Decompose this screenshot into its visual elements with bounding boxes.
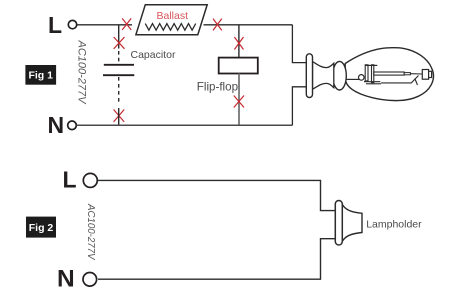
svg-text:Flip-flop: Flip-flop <box>197 81 238 94</box>
wire: dashed capacitor branch lower <box>118 77 120 104</box>
svg-text:L: L <box>63 166 77 192</box>
wire: L terminal to ballast <box>77 24 132 26</box>
wire: L terminal to lampholder (Fig 2) <box>98 180 336 210</box>
wire: N terminal to lamp (Fig 1) <box>77 124 293 126</box>
cut mark X3 on capacitor branch lower <box>114 110 125 122</box>
cut mark X6 on flip-flop branch lower <box>234 96 244 108</box>
svg-text:Capacitor: Capacitor <box>131 49 176 61</box>
wire: capacitor branch to N wire <box>118 108 120 125</box>
svg-text:Fig 2: Fig 2 <box>29 222 54 234</box>
svg-text:N: N <box>48 112 65 138</box>
wire: flip-flop branch lower <box>238 74 240 126</box>
capacitor plates <box>103 65 134 75</box>
lamp arc-tube top connector <box>365 64 377 66</box>
lamp socket horn (Fig 1) <box>313 62 334 90</box>
svg-text:L: L <box>48 12 62 38</box>
svg-text:Lampholder: Lampholder <box>366 219 422 231</box>
wire: flip-flop branch upper <box>238 25 240 58</box>
cut mark X2 on capacitor branch <box>114 37 125 49</box>
lamp arc-tube left post 1 <box>365 65 368 81</box>
svg-text:Ballast: Ballast <box>157 10 189 22</box>
ballast B1 parallelogram <box>136 5 207 35</box>
terminal N circle (Fig 1) <box>68 121 77 130</box>
flip-flop U1 box <box>219 58 258 74</box>
lamp holder flange (Fig 1) <box>306 54 312 98</box>
lampholder flange (Fig 2) <box>335 201 342 246</box>
lamp neck cylinder <box>333 61 347 90</box>
terminal N circle (Fig 2) <box>83 273 97 287</box>
lamp DS1 bulb envelope <box>345 48 433 101</box>
lamp arc tube electrode lead <box>404 73 410 75</box>
svg-text:AC100-277V: AC100-277V <box>76 40 88 106</box>
wire: lamp vertical upper (Fig 1) <box>292 25 306 63</box>
terminal L circle (Fig 1) <box>68 20 76 28</box>
cut mark X5 on flip-flop branch <box>234 37 243 50</box>
wire: N terminal to lampholder (Fig 2) <box>98 239 335 280</box>
lamp arc tube body <box>374 72 404 75</box>
lamp bottom bracket line 2 <box>366 83 381 85</box>
lamp bottom bracket line 1 <box>364 81 380 83</box>
terminal L circle (Fig 2) <box>83 173 97 187</box>
lampholder horn (Fig 2) <box>342 205 362 242</box>
lamp lower lead wire <box>381 76 419 83</box>
cut mark X4 after ballast <box>213 19 222 31</box>
ballast winding zigzag <box>145 24 195 31</box>
svg-text:N: N <box>57 266 75 293</box>
lamp lead wire to end cap <box>410 73 422 75</box>
wire: dashed capacitor branch upper <box>118 51 120 64</box>
Fig 2 tag box <box>26 217 56 238</box>
Fig 1 tag box <box>25 65 56 85</box>
svg-text:Fig 1: Fig 1 <box>28 70 53 82</box>
lamp arc-tube support circle <box>359 75 365 81</box>
lamp arc-tube frame wire into neck <box>345 78 360 80</box>
lamp end cap outer <box>422 70 428 80</box>
svg-text:AC100-277V: AC100-277V <box>85 203 96 261</box>
lamp support tick <box>415 79 418 86</box>
wire: ballast to lamp <box>204 24 293 26</box>
wire: lamp vertical lower (Fig 1) <box>292 87 306 126</box>
lamp arc-tube left post 2 <box>372 65 374 83</box>
junction node: capacitor branch on L wire <box>118 25 120 49</box>
cut mark X1 on L wire <box>122 18 131 30</box>
lamp end cap inner <box>429 71 432 77</box>
